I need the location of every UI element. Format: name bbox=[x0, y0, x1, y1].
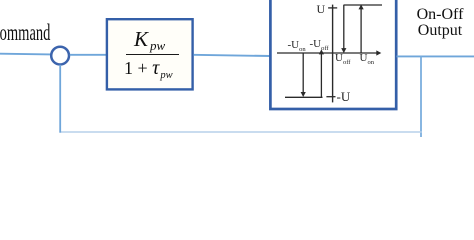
label U_off bbox=[335, 52, 350, 64]
wire: junction to PW block bbox=[70, 54, 107, 56]
arrowhead: input axis right end bbox=[376, 50, 381, 55]
block U1: pulse-width modulator transfer function bbox=[107, 19, 193, 89]
label 1+tau_pw (denominator) bbox=[124, 57, 172, 80]
transition line: -U_off rising edge bbox=[320, 54, 322, 98]
wire: relay output line bbox=[397, 55, 474, 57]
wire: command input line bbox=[0, 53, 51, 56]
block U2: on-off relay with hysteresis (top cut off by image edge) bbox=[270, 0, 396, 109]
transition line: U_on rising edge bbox=[360, 9, 362, 54]
label U_on bbox=[360, 52, 374, 64]
wire: feedback riser to junction bbox=[59, 65, 61, 133]
arrowhead: up toward input axis bbox=[319, 49, 324, 54]
label U (top of output axis) bbox=[317, 2, 326, 17]
label -U_off bbox=[310, 38, 329, 50]
wire: feedback bottom run bbox=[59, 131, 421, 133]
label On-Off Output bbox=[400, 7, 474, 38]
fraction bar bbox=[126, 54, 179, 55]
label -U (bottom of output axis) bbox=[337, 89, 351, 105]
arrowhead: down onto input axis bbox=[341, 48, 346, 53]
wire: PW block to relay block bbox=[194, 55, 271, 56]
wire: output branch drop at node bbox=[420, 56, 422, 137]
label Command bbox=[0, 20, 50, 46]
line: +U output level bbox=[344, 4, 383, 6]
tick: +U level on axis bbox=[328, 7, 337, 9]
arrowhead: up onto +U level bbox=[359, 4, 364, 9]
arrowhead: down onto -U level bbox=[301, 92, 306, 97]
tick: -U level on axis bbox=[326, 96, 335, 98]
axis: vertical output axis U bbox=[332, 5, 334, 103]
label -U_on bbox=[288, 39, 306, 51]
axis: horizontal input axis bbox=[277, 52, 379, 54]
label K_pw (numerator) bbox=[134, 27, 163, 52]
line: -U output level bbox=[285, 96, 323, 98]
transition line: U_off falling edge bbox=[343, 5, 345, 49]
summing junction bbox=[51, 47, 69, 65]
transition line: -U_on falling edge bbox=[302, 53, 304, 93]
